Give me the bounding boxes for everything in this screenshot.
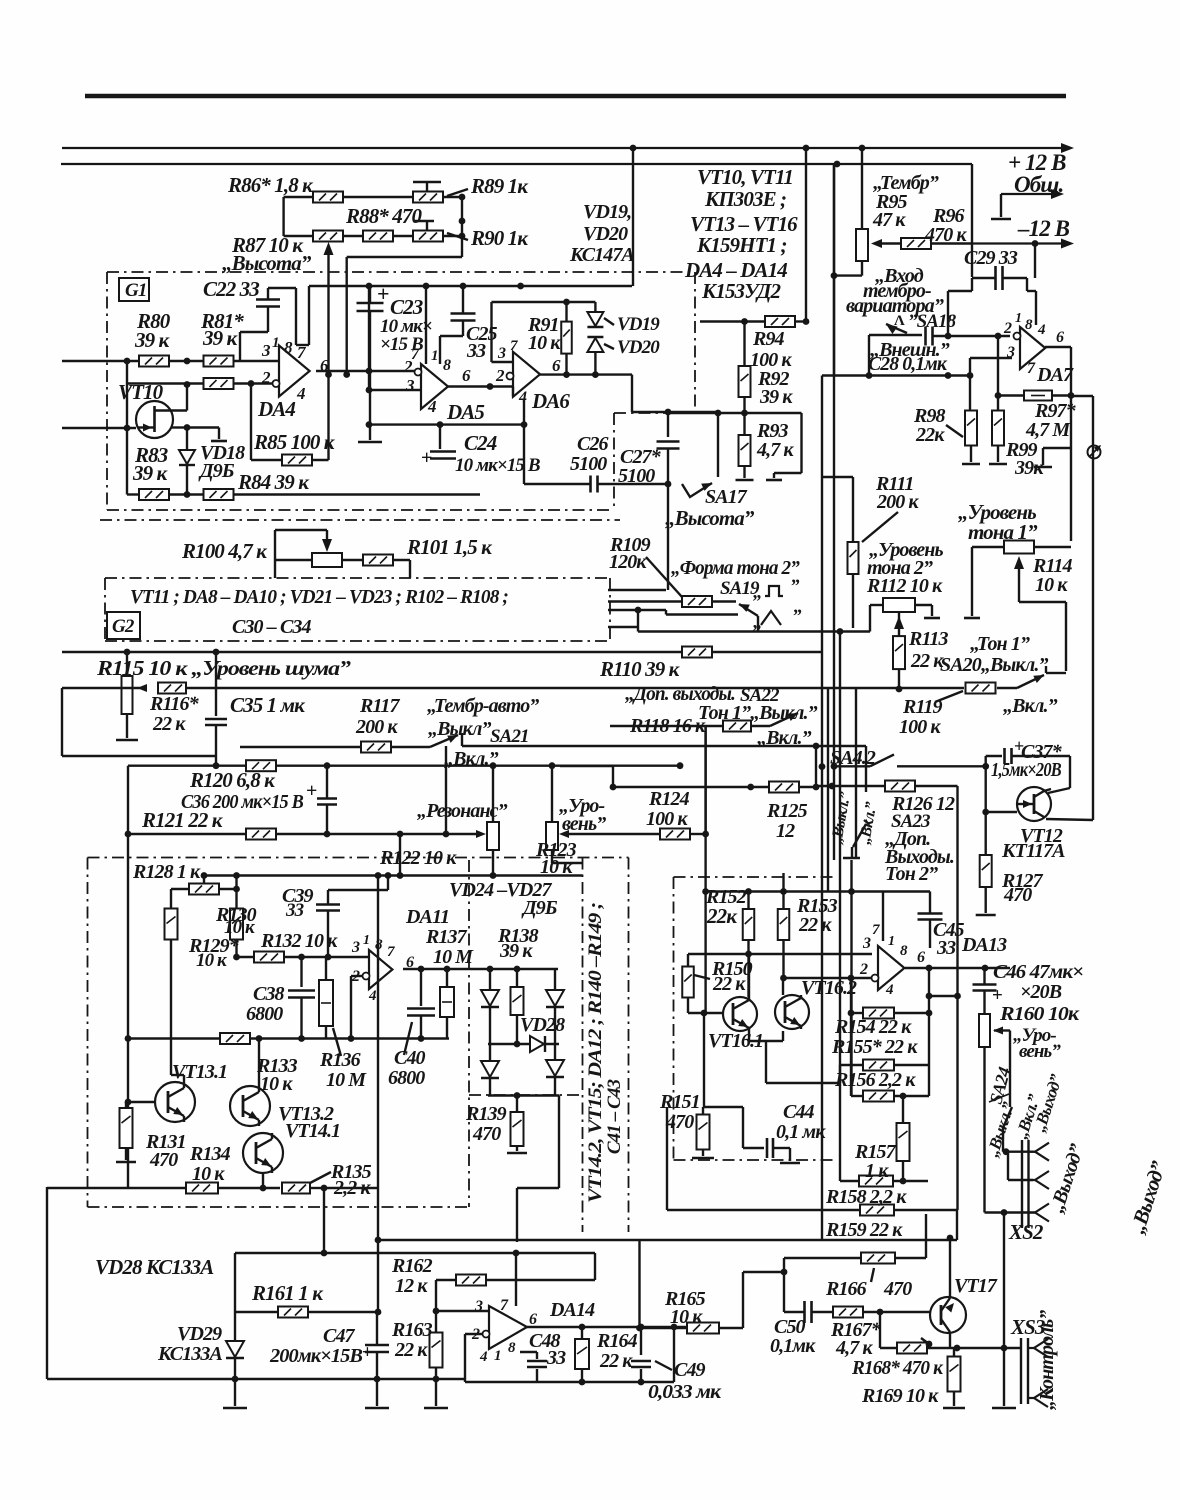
svg-text:R100 4,7 к: R100 4,7 к: [181, 539, 268, 563]
svg-text:VD20: VD20: [617, 337, 660, 358]
svg-text:×20В: ×20В: [1020, 981, 1062, 1003]
svg-text:С44: С44: [783, 1101, 815, 1123]
svg-text:С30 – С34: С30 – С34: [232, 616, 311, 638]
svg-text:КС147А: КС147А: [569, 244, 634, 266]
svg-text:VT14.2, VT15; DA12 ; R140 –R: VT14.2, VT15; DA12 ; R140 –R149 ;: [585, 902, 606, 1203]
svg-text:„: „: [753, 612, 762, 633]
svg-text:Д9Б: Д9Б: [521, 897, 558, 919]
svg-text:Д9Б: Д9Б: [198, 460, 235, 482]
svg-text:470: 470: [1003, 884, 1032, 906]
svg-text:VT10: VT10: [118, 380, 164, 404]
svg-text:DA4: DA4: [257, 397, 295, 421]
svg-text:R168* 470 к: R168* 470 к: [851, 1357, 944, 1379]
svg-text:22 к: 22 к: [394, 1339, 428, 1361]
svg-text:200 к: 200 к: [876, 491, 919, 513]
svg-text:„Выкл”: „Выкл”: [428, 718, 492, 740]
svg-text:R139: R139: [465, 1103, 507, 1125]
svg-text:+: +: [377, 281, 389, 306]
svg-text:5100: 5100: [618, 465, 655, 487]
svg-text:1: 1: [1015, 311, 1021, 326]
svg-text:470: 470: [665, 1111, 694, 1133]
svg-text:R160 10к: R160 10к: [999, 1003, 1080, 1025]
svg-text:R158 2,2 к: R158 2,2 к: [825, 1186, 907, 1208]
svg-text:G1: G1: [125, 280, 146, 301]
svg-text:SA20„Выкл.”: SA20„Выкл.”: [940, 654, 1048, 676]
svg-text:33: 33: [285, 900, 304, 921]
svg-text:R134: R134: [189, 1143, 231, 1165]
svg-text:R125: R125: [766, 800, 808, 822]
svg-text:1 к: 1 к: [865, 1160, 889, 1182]
svg-text:С41 – С43: С41 – С43: [604, 1079, 625, 1154]
svg-text:R121 22 к: R121 22 к: [141, 808, 224, 832]
svg-text:„Резонанс”: „Резонанс”: [417, 800, 508, 822]
svg-text:22 к: 22 к: [712, 973, 746, 995]
svg-text:R101 1,5 к: R101 1,5 к: [406, 535, 493, 559]
svg-text:SA21: SA21: [490, 726, 529, 747]
svg-text:2: 2: [859, 961, 868, 978]
svg-text:R117: R117: [359, 695, 401, 717]
svg-text:„Форма тона 2”: „Форма тона 2”: [671, 557, 800, 579]
svg-text:R94: R94: [752, 328, 785, 350]
svg-text:R159 22 к: R159 22 к: [825, 1219, 903, 1241]
svg-text:С49: С49: [674, 1359, 706, 1381]
svg-text:+: +: [306, 780, 317, 802]
svg-text:VT11 ; DA8 – DA10 ; VD21 –: VT11 ; DA8 – DA10 ; VD21 – VD23 ; R102 –…: [130, 586, 508, 608]
svg-text:С28 0,1мк: С28 0,1мк: [868, 353, 948, 375]
svg-text:2: 2: [261, 368, 271, 387]
svg-text:SA17: SA17: [705, 486, 748, 508]
svg-text:22 к: 22 к: [599, 1350, 633, 1372]
svg-text:”: ”: [790, 576, 800, 597]
svg-text:VT14.1: VT14.1: [285, 1120, 340, 1142]
svg-text:0,1мк: 0,1мк: [770, 1335, 816, 1357]
svg-text:R128 1 к: R128 1 к: [132, 861, 201, 883]
svg-text:R118 16 к: R118 16 к: [629, 715, 706, 737]
svg-text:120к: 120к: [609, 551, 647, 573]
svg-text:2: 2: [495, 366, 505, 385]
svg-text:1,5мк×20В: 1,5мк×20В: [991, 759, 1061, 781]
svg-text:2: 2: [1003, 320, 1012, 337]
svg-text:DA11: DA11: [405, 906, 449, 928]
svg-text:VD20: VD20: [583, 223, 628, 245]
svg-text:R154 22 к: R154 22 к: [834, 1016, 912, 1038]
svg-text:470 к: 470 к: [924, 224, 967, 246]
svg-text:вень”: вень”: [562, 813, 606, 835]
svg-text:R110 39 к: R110 39 к: [599, 657, 681, 681]
svg-text:КТ117А: КТ117А: [1001, 840, 1065, 862]
svg-text:33: 33: [936, 937, 956, 959]
svg-text:VT16.2: VT16.2: [801, 977, 857, 999]
svg-text:33: 33: [466, 340, 486, 362]
svg-text:1: 1: [494, 1348, 501, 1364]
svg-text:470: 470: [149, 1149, 178, 1171]
svg-text:„Контроль”: „Контроль”: [1036, 1310, 1058, 1410]
svg-text:„Тон 1”: „Тон 1”: [970, 633, 1030, 655]
svg-text:С38: С38: [253, 983, 285, 1005]
svg-text:6800: 6800: [388, 1067, 425, 1089]
svg-text:3: 3: [351, 939, 360, 956]
svg-text:тона 1”: тона 1”: [968, 520, 1038, 544]
svg-text:22к: 22к: [915, 424, 945, 446]
svg-text:„: „: [753, 582, 762, 603]
svg-text:+: +: [362, 1342, 372, 1363]
svg-text:„Вкл.”: „Вкл.”: [1003, 695, 1058, 717]
svg-text:39к: 39к: [1014, 457, 1044, 479]
svg-text:39 к: 39 к: [499, 940, 533, 962]
svg-text:R124: R124: [648, 788, 690, 810]
svg-text:”: ”: [792, 606, 802, 627]
svg-text:4,7 к: 4,7 к: [756, 439, 794, 461]
svg-text:4: 4: [427, 397, 436, 416]
svg-text:„Высота”: „Высота”: [222, 251, 312, 275]
svg-text:470: 470: [472, 1123, 501, 1145]
svg-text:DA6: DA6: [531, 389, 570, 413]
svg-text:39 к: 39 к: [134, 328, 171, 352]
svg-text:10 к: 10 к: [1035, 574, 1068, 596]
svg-text:Тон 2”: Тон 2”: [885, 863, 938, 885]
svg-text:100 к: 100 к: [899, 716, 941, 738]
svg-text:22 к: 22 к: [152, 713, 186, 735]
svg-text:SA4.2: SA4.2: [830, 747, 876, 769]
svg-text:R89 1к: R89 1к: [470, 174, 529, 198]
svg-text:470: 470: [883, 1278, 912, 1300]
svg-text:3: 3: [862, 935, 871, 952]
svg-text:R113: R113: [908, 628, 949, 650]
svg-text:R156 2,2 к: R156 2,2 к: [834, 1069, 916, 1091]
svg-text:2: 2: [351, 968, 360, 985]
svg-text:R120 6,8 к: R120 6,8 к: [189, 768, 276, 792]
svg-text:47 к: 47 к: [872, 209, 906, 231]
svg-text:22 к: 22 к: [910, 650, 944, 672]
svg-text:200 к: 200 к: [355, 716, 398, 738]
svg-text:VD28 КС133А: VD28 КС133А: [95, 1255, 214, 1279]
svg-text:R151: R151: [659, 1091, 700, 1113]
svg-text:VT17: VT17: [954, 1275, 998, 1297]
svg-text:22к: 22к: [706, 904, 738, 928]
svg-text:4,7 к: 4,7 к: [835, 1337, 873, 1359]
svg-text:R122 10 к: R122 10 к: [379, 847, 457, 869]
svg-text:VD28: VD28: [520, 1014, 565, 1036]
svg-text:R116*: R116*: [149, 693, 200, 715]
svg-text:вень”: вень”: [1019, 1041, 1061, 1062]
svg-text:4,7 М: 4,7 М: [1025, 419, 1071, 441]
svg-text:R166: R166: [825, 1278, 867, 1300]
svg-text:12: 12: [776, 820, 795, 842]
svg-text:R119: R119: [902, 696, 943, 718]
svg-text:R163: R163: [391, 1319, 433, 1341]
svg-text:VT10, VT11: VT10, VT11: [697, 165, 793, 189]
svg-text:Λ: Λ: [894, 313, 905, 329]
svg-text:3: 3: [497, 345, 506, 362]
svg-text:33: 33: [546, 1347, 566, 1369]
svg-text:VD19,: VD19,: [583, 201, 631, 223]
svg-text:4: 4: [518, 389, 527, 406]
svg-text:Тон 1”: Тон 1”: [698, 702, 751, 724]
svg-text:DA5: DA5: [446, 400, 484, 424]
svg-text:R84 39 к: R84 39 к: [237, 470, 310, 494]
svg-text:К153УД2: К153УД2: [701, 279, 781, 303]
svg-text:10 М: 10 М: [326, 1069, 367, 1091]
svg-text:R161 1 к: R161 1 к: [251, 1281, 324, 1305]
svg-text:R137: R137: [425, 926, 468, 948]
svg-text:С24: С24: [464, 431, 497, 455]
svg-text:R155* 22 к: R155* 22 к: [831, 1036, 918, 1058]
svg-text:Общ.: Общ.: [1014, 172, 1063, 197]
svg-text:5100: 5100: [570, 453, 607, 475]
svg-text:6: 6: [917, 949, 925, 966]
svg-text:КС133А: КС133А: [157, 1343, 222, 1365]
svg-text:DA14: DA14: [549, 1299, 595, 1321]
svg-text:+: +: [421, 447, 432, 469]
svg-text:1: 1: [431, 348, 438, 364]
svg-text:G2: G2: [112, 616, 135, 637]
svg-text:VD19: VD19: [617, 314, 660, 335]
svg-text:8: 8: [443, 357, 451, 374]
svg-text:DA7: DA7: [1036, 364, 1074, 386]
svg-text:39 к: 39 к: [759, 386, 793, 408]
svg-text:10 к: 10 к: [196, 950, 228, 971]
svg-text:„Тембр-авто”: „Тембр-авто”: [427, 695, 539, 717]
svg-text:С40: С40: [394, 1047, 426, 1069]
svg-text:1: 1: [363, 933, 369, 948]
svg-text:6: 6: [529, 1311, 537, 1328]
svg-text:С26: С26: [577, 433, 609, 455]
svg-text:100 к: 100 к: [646, 808, 688, 830]
svg-text:R136: R136: [319, 1049, 361, 1071]
svg-text:„Выкл.”: „Выкл.”: [750, 702, 818, 724]
svg-text:3: 3: [1006, 344, 1015, 361]
svg-text:10 к: 10 к: [670, 1306, 703, 1328]
svg-text:6800: 6800: [246, 1003, 283, 1025]
svg-text:10 М: 10 М: [433, 946, 474, 968]
svg-text:R85 100 к: R85 100 к: [253, 430, 336, 454]
svg-text:VT16.1: VT16.1: [708, 1030, 763, 1052]
svg-text:200мк×15В: 200мк×15В: [269, 1345, 363, 1367]
svg-text:С47: С47: [323, 1325, 356, 1347]
svg-text:R162: R162: [391, 1255, 433, 1277]
svg-text:10 к: 10 к: [192, 1163, 225, 1185]
svg-text:0,033 мк: 0,033 мк: [648, 1381, 722, 1403]
svg-text:VD29: VD29: [177, 1323, 222, 1345]
svg-text:С29 33: С29 33: [964, 247, 1018, 269]
svg-text:10 к: 10 к: [540, 856, 573, 878]
svg-text:2: 2: [403, 357, 413, 376]
svg-text:R112 10 к: R112 10 к: [866, 575, 943, 597]
svg-text:R169 10 к: R169 10 к: [861, 1385, 939, 1407]
svg-text:С35 1 мк: С35 1 мк: [230, 693, 306, 717]
svg-text:6: 6: [406, 954, 414, 971]
svg-text:39 к: 39 к: [132, 461, 169, 485]
svg-text:R115 10 к „Уровень шума”: R115 10 к „Уровень шума”: [96, 656, 352, 680]
svg-text:”SA18: ”SA18: [908, 311, 957, 332]
svg-text:R86* 1,8 к: R86* 1,8 к: [227, 173, 314, 197]
svg-text:„Вкл.”: „Вкл.”: [444, 748, 499, 770]
svg-text:0,1 мк: 0,1 мк: [776, 1121, 826, 1143]
svg-text:3: 3: [261, 341, 271, 360]
svg-text:10 к: 10 к: [528, 332, 561, 354]
svg-text:КП303Е ;: КП303Е ;: [704, 187, 786, 211]
svg-text:1: 1: [272, 335, 279, 351]
svg-text:1: 1: [888, 934, 894, 949]
svg-text:DA13: DA13: [961, 934, 1007, 956]
svg-text:R164: R164: [596, 1330, 638, 1352]
svg-text:10 к: 10 к: [260, 1073, 293, 1095]
svg-text:ХS2: ХS2: [1008, 1220, 1044, 1244]
svg-text:С22 33: С22 33: [203, 277, 259, 301]
svg-text:6: 6: [1056, 329, 1064, 346]
svg-text:3: 3: [474, 1298, 483, 1315]
svg-text:R132 10 к: R132 10 к: [260, 930, 338, 952]
svg-text:2: 2: [471, 1326, 480, 1343]
svg-text:12 к: 12 к: [395, 1275, 428, 1297]
svg-text:R90 1к: R90 1к: [470, 226, 529, 250]
svg-text:R88* 470: R88* 470: [345, 204, 422, 228]
svg-text:10 мк×15 В: 10 мк×15 В: [455, 455, 540, 476]
svg-text:4: 4: [296, 384, 305, 403]
svg-text:К159НТ1 ;: К159НТ1 ;: [696, 233, 787, 257]
svg-text:22 к: 22 к: [798, 914, 832, 936]
svg-text:„Высота”: „Высота”: [665, 506, 755, 530]
svg-text:VT13.1: VT13.1: [172, 1061, 227, 1083]
svg-text:С46 47мк×: С46 47мк×: [993, 961, 1084, 983]
svg-text:3: 3: [405, 376, 415, 395]
svg-text:–12 В: –12 В: [1017, 216, 1070, 241]
svg-text:39 к: 39 к: [202, 326, 239, 350]
svg-text:„Вкл.”: „Вкл.”: [757, 727, 812, 749]
svg-text:2,2 к: 2,2 к: [333, 1177, 371, 1199]
